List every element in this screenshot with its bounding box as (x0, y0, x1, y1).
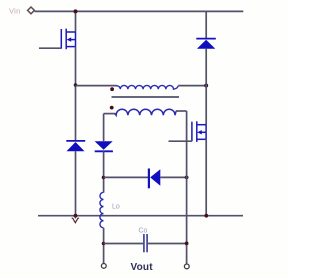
polarity dot secondary (110, 106, 114, 110)
junction dot ground (74, 214, 78, 218)
junction dot Q2 source at rail (204, 214, 208, 218)
junction dot diode branch left (102, 176, 106, 180)
polarity dot primary (110, 87, 114, 91)
transistor Q1 (61, 29, 75, 50)
wire Q2 source down to bottom rail (205, 139, 207, 215)
transistor Q2 (192, 121, 206, 142)
svg-text:Vout: Vout (131, 262, 154, 273)
svg-text:Vin: Vin (9, 6, 21, 15)
wire secondary vertical x=103.6 down to diode D3 (103, 114, 105, 142)
wire D2 anode to bottom rail (75, 151, 77, 216)
junction dot at top rail x=75.5 (74, 9, 78, 13)
wire left vertical upper (rail to Q1 drain) (75, 11, 77, 32)
junction dot Co branch right (185, 242, 189, 246)
wire primary left lead (76, 85, 117, 87)
wire primary right lead (178, 85, 206, 87)
Vout terminal right (184, 264, 189, 269)
Vin terminal (28, 7, 35, 14)
junction dot primary right (204, 84, 208, 88)
wire Co branch right segment (148, 243, 187, 245)
wire D1 anode to junction to Q2 drain (205, 49, 207, 125)
junction dot primary left (74, 83, 78, 87)
wire Q1 gate stub (39, 47, 61, 49)
wire right top vertical (rail to D1) (205, 11, 207, 38)
wire Co branch left segment (104, 243, 144, 245)
wire secondary right vertical x=186.6 (winding to Vout terminal) (186, 111, 188, 264)
wire secondary left lead (104, 113, 116, 115)
diode D4 horizontal (cathode left) (149, 169, 160, 189)
diode D3 (cathode down) (95, 141, 113, 151)
inductor Lo (100, 192, 104, 228)
wire secondary right lead (176, 110, 187, 112)
capacitor Co (144, 234, 147, 252)
wire Lo bottom to Co junction (103, 228, 105, 263)
diode D1 top (196, 39, 216, 49)
junction dot diode branch right (185, 176, 189, 180)
transformer secondary winding (115, 109, 177, 115)
wire left vertical (Q1 source to primary junction to diode) (75, 47, 77, 141)
ground arrow (72, 216, 80, 223)
svg-text:Lo: Lo (112, 204, 120, 211)
wire diode branch right segment (160, 176, 186, 178)
wire D3 cathode to diode branch junction (103, 151, 105, 192)
junction dot Co branch left (102, 242, 106, 246)
diode D2 left (cathode up) (66, 141, 85, 151)
wire diode branch left segment (104, 176, 149, 178)
wire top rail (35, 10, 244, 12)
Vout terminal left (101, 264, 106, 269)
transformer core (112, 96, 180, 98)
wire Q2 gate stub (169, 140, 192, 142)
svg-text:Co: Co (139, 228, 148, 235)
wire bottom rail (38, 215, 243, 217)
transformer primary winding (116, 85, 178, 89)
